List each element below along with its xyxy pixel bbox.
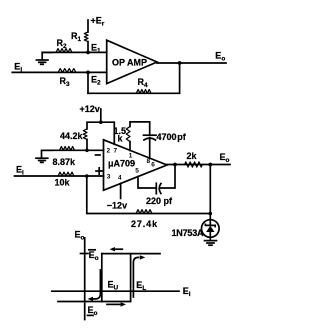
arrow curved down-left at EU — [88, 270, 101, 301]
wire y-axis — [84, 238, 86, 320]
svg-text:−12v: −12v — [107, 201, 127, 211]
wire comp rail — [130, 122, 150, 135]
wire R4 to node E2 — [87, 72, 89, 93]
ground (R2 left) — [42, 52, 52, 59]
wire op-amp output — [167, 164, 230, 166]
wire node E1 to op-amp — [88, 51, 107, 53]
wire Ei to R3 — [12, 71, 106, 73]
svg-text:μA709: μA709 — [108, 159, 135, 169]
svg-text:4: 4 — [118, 174, 122, 181]
svg-text:1: 1 — [129, 153, 133, 160]
node E1 — [86, 51, 90, 55]
wire R1 to node E1 — [87, 42, 89, 53]
wire hysteresis bottom line — [58, 301, 131, 303]
svg-text:4700 pf: 4700 pf — [157, 132, 187, 142]
ground (8.87k left) — [42, 150, 53, 157]
wire positive feedback — [87, 176, 211, 214]
wire pin5 to 220pf — [138, 177, 156, 188]
arrow curved up-right at EL — [133, 255, 145, 297]
wire +12v lead — [100, 109, 102, 122]
svg-text:OP AMP: OP AMP — [112, 58, 147, 68]
svg-text:10k: 10k — [55, 178, 71, 188]
svg-text:8.87k: 8.87k — [53, 157, 77, 167]
resistor 1.5k — [126, 127, 130, 142]
wire hysteresis top line — [102, 253, 160, 255]
op-amp U1 — [107, 40, 157, 83]
arrow right under bottom line — [107, 302, 126, 306]
ground (zener) — [209, 237, 211, 240]
node minus junction — [85, 149, 89, 153]
resistor 10k — [58, 172, 74, 176]
node feedback junction — [178, 61, 182, 65]
svg-text:6: 6 — [151, 161, 155, 168]
svg-text:5: 5 — [135, 168, 139, 175]
wire hysteresis right edge — [130, 254, 132, 302]
wire 1.5k to pin1 — [129, 142, 131, 151]
wire Ei to 10k — [15, 175, 104, 177]
wire output to zener — [209, 165, 211, 226]
svg-text:3: 3 — [107, 174, 111, 181]
wire 44.2k to minus node — [86, 139, 88, 150]
node Eo-bar tick — [81, 253, 89, 255]
minus sign — [96, 154, 101, 156]
node plus junction — [85, 174, 89, 178]
node output junction — [173, 163, 177, 167]
svg-text:220 pf: 220 pf — [146, 196, 173, 206]
node zener junction — [208, 163, 212, 167]
resistor R2 — [56, 49, 72, 53]
node Eo-bar label — [89, 250, 99, 262]
wire x-axis — [52, 290, 179, 292]
resistor 27.4k — [136, 210, 152, 214]
resistor R1 — [84, 32, 88, 42]
svg-text:7: 7 — [114, 148, 118, 155]
wire supply rail — [87, 122, 114, 144]
resistor 44.2k — [83, 129, 87, 140]
svg-text:+12v: +12v — [80, 104, 100, 114]
zener diode 1N753A — [202, 220, 220, 238]
capacitor 220pf — [156, 183, 161, 193]
node E2 — [86, 71, 90, 75]
svg-text:2k: 2k — [187, 151, 198, 161]
resistor R4 — [136, 90, 151, 94]
plus sign — [96, 168, 103, 174]
wire pin4 to -12v — [120, 183, 122, 198]
node Eo-under label — [88, 305, 98, 317]
resistor 8.87k — [60, 147, 75, 151]
resistor 2k — [185, 162, 203, 167]
wire R2 to node E1 — [42, 51, 88, 53]
wire 220pf to output — [160, 165, 175, 189]
svg-text:8: 8 — [147, 158, 151, 165]
wire +Er to R1 — [87, 20, 89, 32]
capacitor 4700pf — [144, 135, 157, 140]
wire op-amp output to Eo — [157, 62, 226, 64]
resistor R3 — [58, 69, 76, 73]
op-amp U2 uA709 — [104, 140, 168, 191]
wire to op-amp minus input — [42, 149, 104, 151]
svg-text:2: 2 — [107, 148, 111, 155]
wire hysteresis left edge — [101, 254, 103, 302]
svg-text:44.2k: 44.2k — [60, 131, 84, 141]
wire junction down — [88, 63, 180, 93]
svg-text:1N753A: 1N753A — [172, 228, 205, 238]
svg-text:27.4k: 27.4k — [131, 219, 158, 229]
arrow left above top line — [110, 247, 123, 251]
